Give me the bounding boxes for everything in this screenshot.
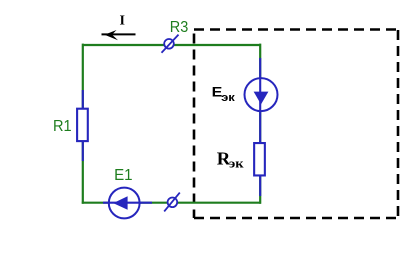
source Eek circle <box>245 78 278 111</box>
dashed box left edge <box>193 34 196 219</box>
resistor Rek body <box>254 143 265 175</box>
arrow of source E1 <box>113 196 127 209</box>
svg-text:E1: E1 <box>114 167 133 184</box>
slash through bottom terminal <box>164 193 180 212</box>
broken-wire terminal at bottom (circle with slash) <box>168 198 178 208</box>
lead of resistor R1 (blue) <box>82 90 84 161</box>
equivalent-generator boundary (dashed box) <box>194 30 398 219</box>
svg-text:эк: эк <box>229 156 244 171</box>
current direction arrow I <box>102 33 136 35</box>
svg-text:I: I <box>120 14 125 29</box>
wire: bottom net <box>82 202 261 204</box>
arrow of source Eek <box>254 92 269 105</box>
wire: left vertical net <box>82 44 84 204</box>
wire through E1 <box>108 202 141 204</box>
wire: top net from node a to right branch <box>82 44 261 46</box>
dashed box top edge <box>194 28 398 31</box>
wire: right vertical net <box>259 44 261 204</box>
wire through Eek <box>259 79 261 111</box>
arrowhead of I <box>105 30 119 40</box>
dashed box right edge <box>397 30 400 216</box>
resistor R1 body <box>77 109 88 141</box>
svg-text:R1: R1 <box>53 118 72 135</box>
lead of source Eek (blue) <box>259 58 261 196</box>
lead of source E1 (blue) <box>103 202 152 204</box>
slash through R3 terminal <box>162 35 179 53</box>
broken-wire terminal of removed R3 (circle with slash) <box>164 39 174 49</box>
dashed box bottom edge <box>194 217 398 220</box>
source E1 circle <box>109 188 140 219</box>
svg-text:R3: R3 <box>170 19 189 36</box>
svg-text:эк: эк <box>221 92 235 104</box>
